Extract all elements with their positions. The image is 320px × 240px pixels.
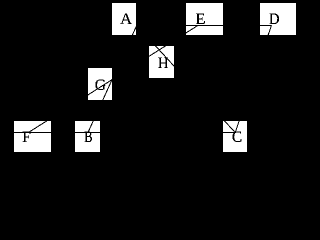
node box C [223, 121, 247, 152]
node box G [88, 68, 112, 100]
svg-text:C: C [232, 129, 242, 146]
edge A-E and E-D horizontal [137, 25, 272, 27]
edge A-B [88, 26, 137, 133]
edge A-C [137, 26, 236, 133]
node box E [186, 3, 223, 35]
svg-text:A: A [120, 11, 132, 28]
node box D [260, 3, 296, 35]
node box H [149, 46, 174, 78]
node box B [75, 121, 100, 152]
svg-text:D: D [269, 11, 280, 28]
svg-text:G: G [95, 77, 106, 94]
edge E-F [28, 26, 197, 133]
edge F-B-C horizontal [0, 132, 235, 134]
svg-text:H: H [158, 55, 169, 72]
edge D-C [235, 26, 271, 133]
svg-text:B: B [84, 129, 92, 146]
svg-text:E: E [195, 11, 205, 28]
svg-text:F: F [22, 129, 31, 146]
node box F [14, 121, 51, 152]
node box A [112, 3, 136, 35]
